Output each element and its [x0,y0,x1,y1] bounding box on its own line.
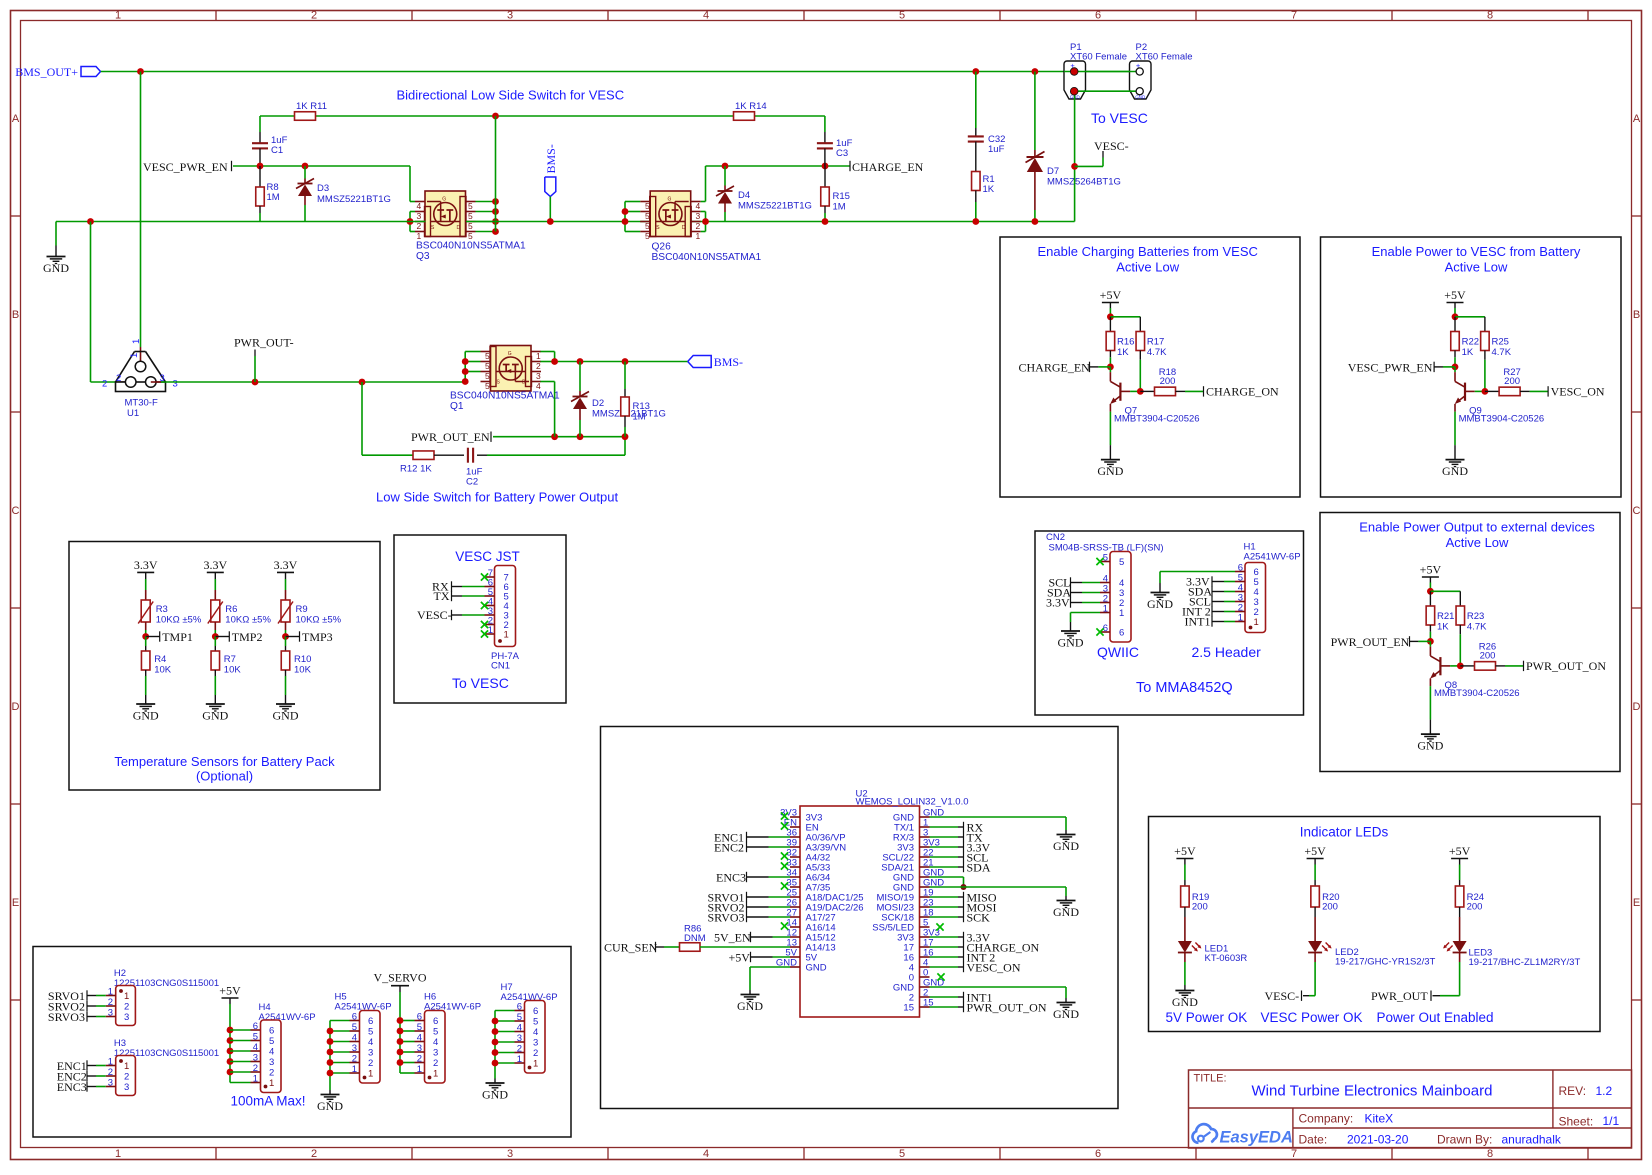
svg-text:200: 200 [1322,902,1338,913]
svg-text:200: 200 [1160,376,1176,387]
svg-text:To VESC: To VESC [452,675,509,691]
svg-text:2: 2 [311,10,317,22]
svg-text:Bidirectional Low Side Switch: Bidirectional Low Side Switch for VESC [397,88,625,103]
svg-text:1: 1 [433,1069,438,1080]
svg-text:4: 4 [417,201,422,211]
svg-text:4: 4 [253,1042,258,1053]
svg-text:100mA Max!: 100mA Max! [231,1094,306,1109]
svg-text:QWIIC: QWIIC [1097,644,1139,660]
svg-text:SDA: SDA [967,861,991,875]
svg-text:Wind Turbine Electronics Mainb: Wind Turbine Electronics Mainboard [1252,1083,1493,1100]
svg-text:4: 4 [269,1047,274,1058]
svg-text:G: G [442,197,446,203]
svg-text:C2: C2 [466,477,478,488]
svg-text:5: 5 [368,1027,373,1038]
svg-text:Enable Power to VESC from Batt: Enable Power to VESC from Battery [1372,244,1581,259]
svg-text:XT60 Female: XT60 Female [1136,52,1193,63]
svg-text:5: 5 [899,10,905,22]
svg-text:VESC_ON: VESC_ON [1551,385,1605,399]
svg-text:1: 1 [108,987,113,998]
svg-text:5: 5 [269,1036,274,1047]
svg-text:1.2: 1.2 [1596,1084,1613,1098]
svg-text:GND: GND [273,709,299,723]
svg-text:2.5 Header: 2.5 Header [1192,644,1262,660]
svg-text:Active Low: Active Low [1116,260,1179,275]
svg-text:A: A [1633,113,1641,125]
svg-text:2: 2 [536,361,541,371]
svg-text:D: D [457,225,461,231]
svg-text:7: 7 [1291,10,1297,22]
svg-text:15: 15 [903,1003,914,1014]
svg-text:CHARGE_EN: CHARGE_EN [852,160,924,174]
svg-text:GND: GND [1172,995,1198,1009]
svg-text:GND: GND [1053,1007,1079,1021]
svg-text:4: 4 [703,10,709,22]
svg-text:+5V: +5V [1420,563,1442,577]
svg-text:6: 6 [1095,10,1101,22]
svg-text:MMSZ5264BT1G: MMSZ5264BT1G [1047,177,1121,188]
svg-text:3.3V: 3.3V [134,558,158,572]
svg-text:1: 1 [1254,617,1259,628]
svg-text:+5V: +5V [1449,844,1471,858]
svg-text:10KΩ ±5%: 10KΩ ±5% [225,615,271,626]
svg-text:5: 5 [533,1017,538,1028]
svg-text:GND: GND [1053,905,1079,919]
svg-text:BSC040N10NS5ATMA1: BSC040N10NS5ATMA1 [652,252,762,263]
svg-text:1: 1 [129,353,140,358]
svg-text:D: D [12,701,20,713]
svg-text:3: 3 [124,1082,129,1093]
svg-text:1K R11: 1K R11 [296,101,327,112]
svg-text:1: 1 [115,1148,121,1160]
svg-text:5: 5 [468,211,473,221]
svg-text:2: 2 [269,1068,274,1079]
svg-text:VESC Power OK: VESC Power OK [1261,1010,1363,1025]
svg-text:PWR_OUT_EN: PWR_OUT_EN [1331,635,1410,649]
svg-text:GND: GND [1417,739,1443,753]
svg-text:C1: C1 [271,145,283,156]
svg-text:1K R14: 1K R14 [735,101,767,112]
svg-text:1: 1 [368,1069,373,1080]
svg-text:5: 5 [645,211,650,221]
svg-text:5: 5 [485,371,490,381]
svg-text:D2: D2 [592,398,604,409]
svg-text:WEMOS_LOLIN32_V1.0.0: WEMOS_LOLIN32_V1.0.0 [856,797,969,808]
svg-text:3: 3 [108,1008,113,1019]
svg-text:R9: R9 [296,604,308,615]
svg-text:R22: R22 [1462,336,1479,347]
svg-text:R7: R7 [224,654,236,665]
svg-text:D3: D3 [317,183,329,194]
svg-text:3: 3 [417,211,422,221]
svg-text:TMP2: TMP2 [232,630,263,644]
svg-text:PWR_OUT_ON: PWR_OUT_ON [967,1001,1047,1015]
svg-text:3: 3 [507,1148,513,1160]
svg-text:2: 2 [102,379,107,390]
svg-text:5: 5 [485,361,490,371]
svg-text:10K: 10K [294,665,312,676]
svg-text:3: 3 [173,379,178,390]
svg-text:+5V: +5V [1100,288,1122,302]
svg-text:2: 2 [417,221,422,231]
svg-text:200: 200 [1480,651,1496,662]
svg-text:3: 3 [536,371,541,381]
svg-text:2: 2 [253,1063,258,1074]
svg-text:ENC2: ENC2 [714,841,744,855]
svg-text:10K: 10K [154,665,172,676]
svg-text:PWR_OUT: PWR_OUT [1371,989,1428,1003]
svg-text:3: 3 [507,10,513,22]
svg-text:12251103CNG0S115001: 12251103CNG0S115001 [114,978,219,989]
svg-text:PWR_OUT_ON: PWR_OUT_ON [1526,659,1606,673]
svg-text:TITLE:: TITLE: [1194,1073,1227,1085]
svg-text:E: E [12,897,19,909]
svg-text:8: 8 [1487,10,1493,22]
svg-text:GND: GND [43,261,69,275]
svg-text:KiteX: KiteX [1365,1112,1394,1126]
svg-text:+5V: +5V [729,951,751,965]
svg-text:A: A [12,113,20,125]
svg-text:(Optional): (Optional) [196,769,253,784]
svg-text:5: 5 [468,201,473,211]
svg-text:5: 5 [645,201,650,211]
svg-text:G: G [668,197,672,203]
svg-text:4: 4 [368,1037,373,1048]
svg-text:TMP1: TMP1 [162,630,193,644]
svg-text:anuradhalk: anuradhalk [1502,1133,1562,1147]
svg-text:4.7K: 4.7K [1492,347,1512,358]
svg-text:D4: D4 [738,190,750,201]
svg-text:R25: R25 [1492,336,1509,347]
svg-text:Power Out Enabled: Power Out Enabled [1377,1010,1494,1025]
svg-text:1K: 1K [1437,621,1449,632]
svg-text:MT30-F: MT30-F [125,398,158,409]
svg-text:2: 2 [124,1072,129,1083]
svg-text:5: 5 [899,1148,905,1160]
svg-text:GND: GND [317,1099,343,1113]
svg-text:1: 1 [536,351,541,361]
svg-text:BMS_OUT+: BMS_OUT+ [15,65,78,79]
svg-text:1: 1 [108,1057,113,1068]
svg-text:1: 1 [124,991,129,1002]
svg-text:6: 6 [533,1006,538,1017]
svg-text:Sheet:: Sheet: [1559,1115,1594,1129]
svg-text:10KΩ ±5%: 10KΩ ±5% [156,615,202,626]
svg-text:A2541WV-6P: A2541WV-6P [259,1012,316,1023]
svg-text:4.7K: 4.7K [1467,621,1487,632]
svg-text:4.7K: 4.7K [1147,347,1167,358]
svg-text:3: 3 [696,211,701,221]
svg-text:GND: GND [482,1088,508,1102]
svg-text:1: 1 [131,339,142,344]
svg-text:VESC JST: VESC JST [455,549,520,564]
svg-text:Company:: Company: [1299,1112,1354,1126]
svg-text:KT-0603R: KT-0603R [1205,953,1248,964]
svg-text:C: C [12,505,20,517]
svg-text:5V Power OK: 5V Power OK [1166,1010,1248,1025]
svg-text:1: 1 [504,630,509,641]
svg-text:GND: GND [1097,464,1123,478]
svg-text:ENC3: ENC3 [57,1080,87,1094]
svg-text:DNM: DNM [684,933,706,944]
svg-text:B: B [12,309,19,321]
svg-text:6: 6 [269,1026,274,1037]
svg-text:2: 2 [696,221,701,231]
svg-text:GND: GND [133,709,159,723]
svg-text:1M: 1M [833,202,846,213]
svg-text:200: 200 [1192,902,1208,913]
svg-text:5: 5 [1119,557,1124,568]
svg-text:D: D [522,380,526,386]
svg-text:200: 200 [1504,376,1520,387]
svg-text:TX: TX [434,589,450,603]
svg-text:CUR_SEN: CUR_SEN [604,941,658,955]
svg-text:3: 3 [433,1048,438,1059]
svg-text:2: 2 [433,1058,438,1069]
svg-text:6: 6 [368,1016,373,1027]
svg-text:2: 2 [108,997,113,1008]
svg-text:MMBT3904-C20526: MMBT3904-C20526 [1459,414,1545,425]
svg-text:1K: 1K [1462,347,1474,358]
svg-text:5: 5 [433,1027,438,1038]
svg-text:5: 5 [645,221,650,231]
svg-text:BSC040N10NS5ATMA1: BSC040N10NS5ATMA1 [450,391,560,402]
svg-text:SRVO3: SRVO3 [48,1010,85,1024]
svg-text:4: 4 [536,381,541,391]
svg-text:R16: R16 [1117,336,1134,347]
svg-text:3: 3 [108,1078,113,1089]
svg-text:SRVO3: SRVO3 [708,911,745,925]
svg-text:8: 8 [1487,1148,1493,1160]
svg-text:D: D [682,225,686,231]
svg-text:R21: R21 [1437,611,1454,622]
svg-text:1: 1 [124,1061,129,1072]
svg-text:2: 2 [533,1048,538,1059]
svg-text:GND: GND [1053,839,1079,853]
svg-text:4: 4 [433,1037,438,1048]
svg-text:1: 1 [269,1078,274,1089]
svg-text:VESC_PWR_EN: VESC_PWR_EN [1348,360,1433,374]
svg-text:SCK: SCK [967,911,991,925]
svg-text:CN1: CN1 [491,661,510,672]
svg-text:Active Low: Active Low [1446,535,1509,550]
svg-text:VESC-: VESC- [1265,989,1300,1003]
svg-text:GND: GND [1442,464,1468,478]
svg-text:R17: R17 [1147,336,1164,347]
svg-text:1M: 1M [267,192,280,203]
svg-text:PWR_OUT_EN: PWR_OUT_EN [411,430,490,444]
svg-text:Drawn By:: Drawn By: [1437,1133,1492,1147]
svg-text:Enable Power Output to externa: Enable Power Output to external devices [1359,520,1595,535]
svg-text:EasyEDA: EasyEDA [1220,1129,1293,1147]
svg-text:GND: GND [202,709,228,723]
svg-text:R6: R6 [225,604,237,615]
svg-text:Temperature Sensors for Batter: Temperature Sensors for Battery Pack [114,754,335,769]
svg-text:R10: R10 [294,654,311,665]
svg-text:1K: 1K [1117,347,1129,358]
svg-text:6: 6 [1095,1148,1101,1160]
svg-text:BMS-: BMS- [544,144,558,173]
svg-text:1/1: 1/1 [1603,1114,1620,1128]
svg-text:BMS-: BMS- [714,355,743,369]
svg-text:Date:: Date: [1299,1133,1328,1147]
svg-text:10K: 10K [224,665,242,676]
svg-text:D7: D7 [1047,166,1059,177]
svg-text:VESC-: VESC- [417,608,452,622]
svg-text:1: 1 [417,231,422,241]
svg-text:3: 3 [253,1053,258,1064]
svg-text:B: B [1633,309,1640,321]
svg-text:R3: R3 [156,604,168,615]
svg-text:3: 3 [533,1038,538,1049]
svg-text:REV:: REV: [1559,1084,1587,1098]
svg-text:Active Low: Active Low [1445,260,1508,275]
svg-text:200: 200 [1467,902,1483,913]
svg-text:2021-03-20: 2021-03-20 [1347,1133,1409,1147]
svg-text:D: D [1633,701,1641,713]
svg-text:TMP3: TMP3 [302,630,333,644]
svg-text:U1: U1 [127,408,139,419]
svg-text:MMBT3904-C20526: MMBT3904-C20526 [1114,414,1200,425]
svg-text:1M: 1M [633,412,646,423]
svg-text:10KΩ ±5%: 10KΩ ±5% [296,615,342,626]
svg-text:MMBT3904-C20526: MMBT3904-C20526 [1434,688,1520,699]
svg-text:VESC_ON: VESC_ON [967,961,1021,975]
svg-text:ENC3: ENC3 [716,871,746,885]
svg-text:CHARGE_EN: CHARGE_EN [1019,360,1091,374]
svg-text:1: 1 [696,231,701,241]
svg-text:1: 1 [115,10,121,22]
svg-text:1: 1 [533,1059,538,1070]
svg-text:A2541WV-6P: A2541WV-6P [1244,552,1301,563]
svg-text:CHARGE_ON: CHARGE_ON [1206,385,1279,399]
svg-text:1: 1 [253,1074,258,1085]
svg-text:+5V: +5V [1174,844,1196,858]
svg-text:Enable Charging Batteries from: Enable Charging Batteries from VESC [1038,244,1258,259]
svg-text:5: 5 [253,1032,258,1043]
svg-text:4: 4 [533,1027,538,1038]
svg-text:2: 2 [124,1002,129,1013]
svg-text:+5V: +5V [1444,288,1466,302]
svg-text:INT1: INT1 [1185,615,1211,629]
svg-text:VESC-: VESC- [1094,139,1129,153]
svg-text:R15: R15 [833,191,850,202]
svg-text:5V_EN: 5V_EN [714,931,751,945]
svg-text:GND: GND [806,963,827,974]
svg-text:3: 3 [368,1048,373,1059]
svg-text:GND: GND [737,999,763,1013]
svg-text:CN2: CN2 [1046,532,1065,543]
svg-text:BSC040N10NS5ATMA1: BSC040N10NS5ATMA1 [416,241,526,252]
svg-text:Q26: Q26 [652,242,672,253]
svg-text:G: G [508,351,512,357]
svg-text:2: 2 [108,1067,113,1078]
svg-text:6: 6 [433,1016,438,1027]
svg-text:3: 3 [269,1057,274,1068]
svg-text:VESC_PWR_EN: VESC_PWR_EN [143,160,228,174]
svg-text:3.3V: 3.3V [274,558,298,572]
svg-text:GND: GND [1058,636,1084,650]
svg-text:2: 2 [368,1058,373,1069]
svg-text:2: 2 [311,1148,317,1160]
svg-text:1: 1 [488,625,493,636]
svg-text:MMSZ5221BT1G: MMSZ5221BT1G [317,194,391,205]
svg-text:3.3V: 3.3V [1046,596,1070,610]
svg-text:12251103CNG0S115001: 12251103CNG0S115001 [114,1048,219,1059]
svg-text:5: 5 [468,221,473,231]
svg-text:6: 6 [253,1021,258,1032]
svg-text:6: 6 [1119,628,1124,639]
svg-text:4: 4 [696,201,701,211]
svg-text:2: 2 [116,373,121,384]
svg-text:1: 1 [1103,604,1108,615]
svg-text:R23: R23 [1467,611,1484,622]
svg-text:5: 5 [485,351,490,361]
svg-text:C: C [1633,505,1641,517]
svg-text:R12 1K: R12 1K [400,464,432,475]
svg-text:7: 7 [1291,1148,1297,1160]
svg-text:5: 5 [468,231,473,241]
svg-text:To MMA8452Q: To MMA8452Q [1136,680,1233,696]
svg-text:+5V: +5V [219,984,241,998]
svg-text:19-217/BHC-ZL1M2RY/3T: 19-217/BHC-ZL1M2RY/3T [1469,957,1581,968]
svg-text:V_SERVO: V_SERVO [373,971,426,985]
svg-text:4: 4 [703,1148,709,1160]
svg-text:1: 1 [1119,608,1124,619]
svg-text:3: 3 [124,1012,129,1023]
svg-text:1uF: 1uF [988,144,1005,155]
svg-text:R4: R4 [154,654,166,665]
svg-text:GND: GND [1147,597,1173,611]
svg-text:C3: C3 [836,148,848,159]
svg-text:5: 5 [485,381,490,391]
svg-text:R13: R13 [633,401,650,412]
svg-text:Indicator LEDs: Indicator LEDs [1300,825,1389,840]
svg-text:Low Side Switch for Battery Po: Low Side Switch for Battery Power Output [376,490,618,505]
svg-text:1K: 1K [983,184,995,195]
svg-text:MMSZ5221BT1G: MMSZ5221BT1G [738,201,812,212]
svg-text:E: E [1633,897,1640,909]
svg-text:+5V: +5V [1304,844,1326,858]
svg-text:XT60 Female: XT60 Female [1070,52,1127,63]
svg-text:Q1: Q1 [450,401,464,412]
svg-text:To VESC: To VESC [1091,110,1148,126]
svg-text:Q3: Q3 [416,251,430,262]
svg-text:19-217/GHC-YR1S2/3T: 19-217/GHC-YR1S2/3T [1335,957,1436,968]
svg-text:3.3V: 3.3V [203,558,227,572]
svg-text:5: 5 [645,231,650,241]
svg-text:PWR_OUT-: PWR_OUT- [234,336,294,350]
